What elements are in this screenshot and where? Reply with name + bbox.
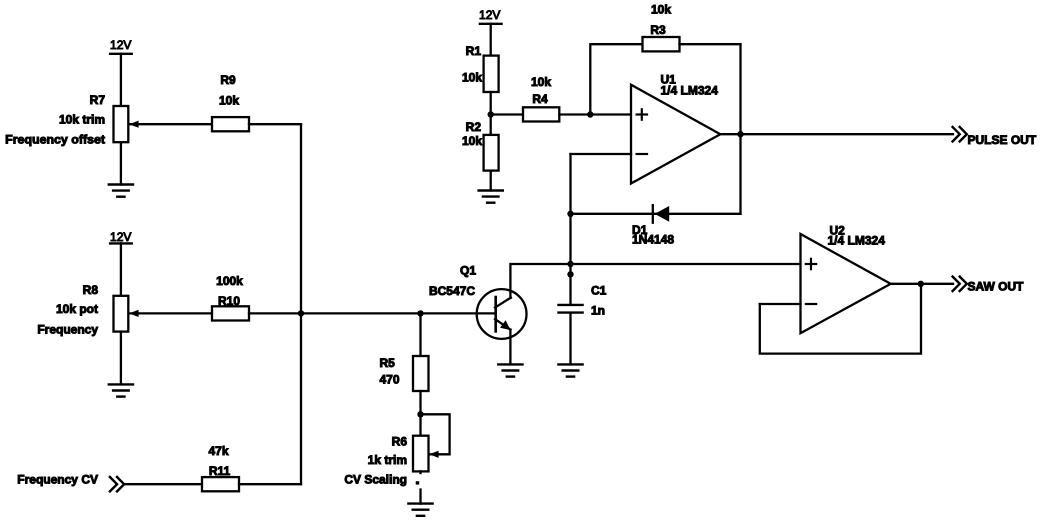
svg-text:R5: R5 [380,356,396,370]
svg-text:R2: R2 [466,120,482,134]
svg-text:100k: 100k [216,274,243,288]
svg-text:C1: C1 [591,283,607,297]
svg-text:R3: R3 [650,23,666,37]
svg-text:Q1: Q1 [460,264,476,278]
svg-text:R11: R11 [209,464,231,478]
svg-text:Frequency: Frequency [37,323,98,337]
svg-text:Frequency offset: Frequency offset [5,132,105,146]
svg-text:R4: R4 [532,92,548,106]
svg-text:1/4 LM324: 1/4 LM324 [828,233,886,247]
svg-text:10k: 10k [462,134,482,148]
svg-text:R9: R9 [220,73,236,87]
svg-text:R10: R10 [218,294,240,308]
svg-text:12V: 12V [479,8,500,22]
svg-text:R7: R7 [90,93,106,107]
svg-text:1N4148: 1N4148 [632,233,674,247]
svg-text:12V: 12V [110,230,131,244]
svg-text:R6: R6 [392,435,408,449]
svg-text:10k: 10k [531,75,551,89]
svg-text:PULSE OUT: PULSE OUT [968,133,1037,147]
svg-text:CV Scaling: CV Scaling [344,473,407,487]
svg-text:10k trim: 10k trim [59,112,105,126]
svg-text:47k: 47k [208,444,228,458]
svg-text:10k pot: 10k pot [56,302,98,316]
svg-text:10k: 10k [462,70,482,84]
svg-text:SAW OUT: SAW OUT [968,279,1025,293]
svg-text:12V: 12V [110,38,131,52]
svg-text:1k trim: 1k trim [368,453,407,467]
svg-text:R8: R8 [83,283,99,297]
svg-text:R1: R1 [466,44,482,58]
svg-text:1/4 LM324: 1/4 LM324 [661,84,719,98]
svg-text:BC547C: BC547C [429,284,475,298]
svg-text:10k: 10k [219,94,239,108]
svg-text:Frequency CV: Frequency CV [17,473,98,487]
svg-text:10k: 10k [651,3,671,17]
svg-text:1n: 1n [591,304,605,318]
svg-text:470: 470 [380,373,400,387]
